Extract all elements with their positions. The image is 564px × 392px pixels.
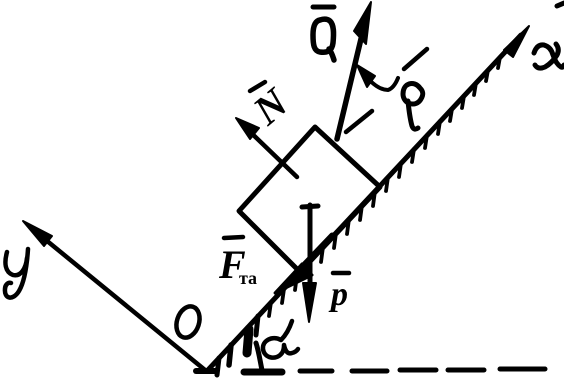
incline / x-axis line bbox=[207, 35, 521, 371]
vector P bbox=[308, 205, 313, 305]
corner mark top right bbox=[557, 3, 564, 6]
Q label bbox=[313, 19, 334, 60]
hatching along incline bbox=[217, 57, 500, 375]
y-axis line bbox=[30, 227, 205, 370]
svg-text:та: та bbox=[239, 268, 257, 288]
y-axis arrowhead bbox=[23, 221, 52, 246]
vertex foot bbox=[196, 368, 216, 374]
svg-text:p: p bbox=[328, 276, 348, 313]
rho label bbox=[403, 83, 423, 129]
N label (rotated) bbox=[243, 78, 297, 134]
rho angle arc bbox=[364, 74, 398, 90]
y label bbox=[5, 249, 28, 298]
alpha angle arc bbox=[256, 343, 262, 370]
alpha label bbox=[263, 321, 298, 358]
x-axis arrowhead bbox=[504, 26, 529, 57]
dashed horizontal ground line bbox=[244, 369, 545, 372]
vector N bbox=[244, 126, 297, 177]
vector Q bbox=[337, 18, 366, 139]
dashed reference line for rho bbox=[346, 49, 427, 132]
block on incline bbox=[239, 127, 380, 272]
origin label O bbox=[173, 303, 204, 340]
x label bbox=[534, 44, 564, 68]
vector F friction bbox=[288, 235, 332, 281]
